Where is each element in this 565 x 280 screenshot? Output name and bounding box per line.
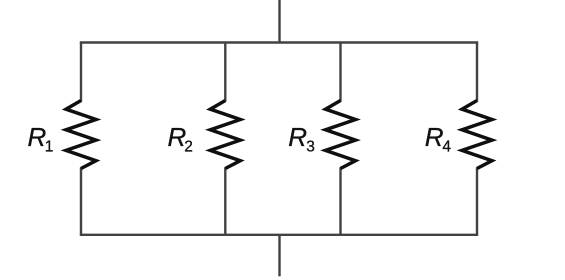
svg-text:R: R [425, 122, 444, 152]
wire: R3 top lead [339, 43, 341, 102]
svg-text:3: 3 [306, 139, 315, 156]
wire: bottom rail [80, 234, 478, 236]
label R2 [168, 122, 193, 156]
resistor R4 [462, 101, 492, 169]
wire: R2 top lead [224, 43, 226, 102]
wire: top input stub [278, 0, 280, 43]
wire: bottom output stub [278, 235, 280, 276]
wire: R1 top lead [80, 43, 82, 102]
label R1 [28, 122, 54, 156]
svg-text:2: 2 [184, 139, 193, 156]
wire: R3 bottom lead [339, 168, 341, 235]
wire: R4 top lead [476, 43, 478, 102]
wire: R2 bottom lead [224, 168, 226, 235]
wire: R4 bottom lead [476, 168, 478, 235]
wire: top rail [80, 41, 478, 43]
resistor R3 [326, 101, 356, 169]
resistor R1 [66, 101, 96, 169]
label R4 [425, 122, 452, 156]
svg-text:R: R [28, 122, 47, 152]
wire: R1 bottom lead [80, 168, 82, 235]
label R3 [288, 122, 315, 156]
svg-text:1: 1 [45, 139, 54, 156]
resistor R2 [210, 101, 240, 169]
svg-text:R: R [288, 122, 307, 152]
svg-text:4: 4 [442, 139, 451, 156]
